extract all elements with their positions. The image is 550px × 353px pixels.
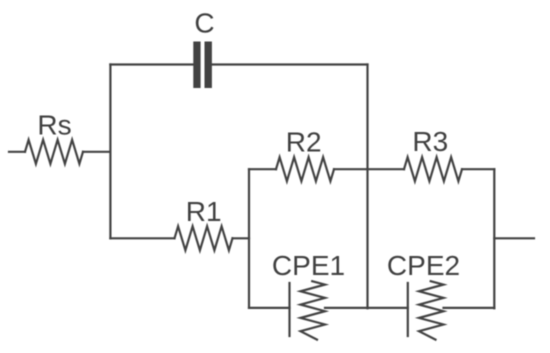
wire CPE1 branch left <box>249 307 290 309</box>
resistor R3 <box>404 157 462 181</box>
capacitor-plate line of CPE1 <box>288 283 290 336</box>
svg-text:CPE1: CPE1 <box>272 250 345 281</box>
wire input stub left <box>9 151 25 153</box>
wire CPE2 branch left <box>368 307 408 309</box>
wire R1 branch left <box>110 237 174 239</box>
capacitor C left plate <box>193 42 200 89</box>
resistor Rs <box>25 140 83 164</box>
svg-text:R3: R3 <box>412 126 448 157</box>
resistor R2 <box>276 157 334 181</box>
zigzag element of CPE2 <box>419 281 444 339</box>
capacitor C right plate <box>205 42 212 89</box>
wire CPE2 to bus D <box>444 307 495 309</box>
wire CPE1 to bus B <box>325 307 368 309</box>
wire Rs to node A <box>83 151 110 153</box>
svg-text:CPE2: CPE2 <box>387 250 460 281</box>
resistor R1 <box>175 226 233 250</box>
svg-text:Rs: Rs <box>37 110 71 141</box>
wire R2 branch left <box>249 168 276 170</box>
wire R3 to bus D <box>462 168 494 170</box>
wire R2 to R3 through node B <box>334 168 404 170</box>
wire R1 to bus C <box>233 237 250 239</box>
wire top branch left of C <box>110 63 193 65</box>
wire vertical bus node A <box>109 65 111 239</box>
capacitor-plate line of CPE2 <box>407 283 409 336</box>
svg-text:R1: R1 <box>186 196 222 227</box>
wire vertical bus node B <box>366 65 368 309</box>
svg-text:C: C <box>194 7 214 38</box>
wire output stub right <box>494 237 534 239</box>
svg-text:R2: R2 <box>286 127 322 158</box>
wire vertical bus node C <box>248 169 250 308</box>
wire vertical bus node D <box>493 169 495 308</box>
zigzag element of CPE1 <box>301 281 326 339</box>
wire top branch right of C <box>212 63 368 65</box>
